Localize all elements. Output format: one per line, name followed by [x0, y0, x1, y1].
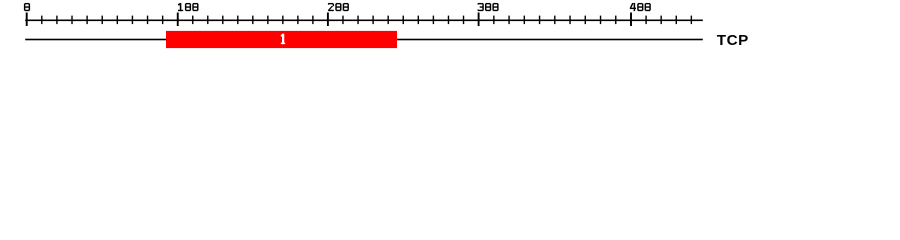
major tick 300	[478, 13, 480, 27]
ruler label 0	[24, 3, 30, 11]
flow baseline wire	[25, 39, 703, 41]
ruler label 300	[478, 3, 499, 11]
major tick 400	[630, 13, 632, 27]
flow segment bar (red)	[166, 31, 397, 48]
ruler tick marks (every 10 units)	[41, 16, 692, 25]
major tick 200	[327, 13, 329, 27]
major tick 0	[26, 13, 28, 27]
ruler label 400	[630, 3, 651, 11]
ruler label 100	[178, 3, 199, 11]
ruler axis line	[25, 20, 703, 22]
flow segment label 1 (white)	[281, 34, 285, 44]
svg-text:TCP: TCP	[717, 32, 749, 49]
major tick 100	[177, 13, 179, 27]
background	[0, 0, 900, 58]
ruler label 200	[328, 3, 349, 11]
